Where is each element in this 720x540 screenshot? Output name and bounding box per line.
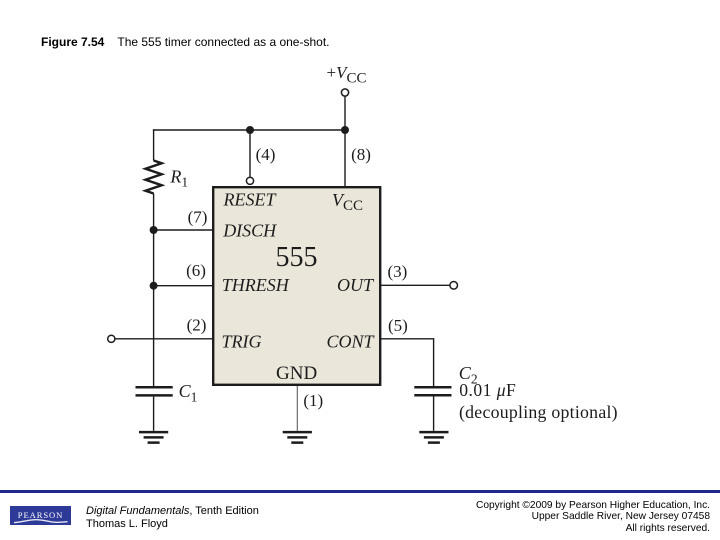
wire out (pin 3) — [381, 284, 450, 286]
svg-text:DISCH: DISCH — [222, 221, 277, 241]
terminal out open circle — [450, 282, 458, 290]
wire disch (pin 7) — [154, 229, 213, 231]
resistor R1 — [146, 161, 162, 194]
wire left rail upper lead — [153, 129, 155, 160]
svg-text:555: 555 — [276, 242, 318, 273]
label CONT — [326, 332, 375, 352]
pin label (3) — [387, 262, 407, 281]
wire cont (pin 5) — [381, 339, 434, 386]
wire thresh (pin 6) — [154, 285, 213, 287]
label 555 — [276, 242, 318, 273]
svg-text:(decoupling optional): (decoupling optional) — [459, 402, 618, 423]
node Vcc rail junction — [341, 126, 349, 134]
wire C1 to ground — [153, 397, 155, 431]
label RESET — [223, 190, 278, 210]
footer left credit — [86, 505, 259, 531]
label Vcc pin — [332, 190, 363, 214]
svg-text:GND: GND — [276, 363, 317, 384]
wire C2 to ground — [433, 397, 435, 431]
label THRESH — [222, 275, 290, 295]
svg-text:(3): (3) — [387, 262, 407, 281]
pin label (7) — [188, 207, 208, 226]
wire reset stem (pin 4) — [249, 130, 251, 177]
svg-text:(2): (2) — [187, 316, 207, 335]
footer right copyright — [476, 500, 710, 534]
svg-text:+VCC: +VCC — [327, 63, 367, 87]
label +Vcc — [327, 63, 367, 87]
capacitor C1 — [136, 387, 173, 395]
ground below C1 — [139, 432, 168, 443]
Pearson logo — [10, 506, 71, 525]
wire Vcc stem (pin 8) — [344, 96, 346, 186]
svg-text:RESET: RESET — [223, 190, 278, 210]
IC 555 timer U1 — [213, 187, 380, 385]
label TRIG — [222, 332, 262, 352]
wire left rail lower — [153, 194, 155, 387]
svg-text:(7): (7) — [188, 207, 208, 226]
node disch junction — [150, 226, 158, 234]
ground below chip — [283, 432, 312, 443]
ground below C2 — [419, 432, 448, 443]
label C1 — [179, 381, 198, 405]
svg-text:(6): (6) — [186, 261, 206, 280]
svg-text:CONT: CONT — [326, 332, 375, 352]
wire trig (pin 2) — [115, 338, 213, 340]
title caption — [41, 35, 330, 49]
wire top rail — [153, 129, 345, 131]
terminal +Vcc — [341, 89, 348, 96]
label OUT — [337, 275, 375, 295]
svg-text:0.01 μF: 0.01 μF — [459, 380, 516, 400]
terminal trigger input open circle — [108, 335, 115, 342]
pin label (1) — [303, 391, 323, 410]
node thresh junction — [150, 282, 158, 290]
footer blue rule — [0, 490, 720, 493]
pin label (8) — [351, 145, 371, 164]
svg-text:(8): (8) — [351, 145, 371, 164]
terminal reset open circle — [246, 177, 253, 184]
label decoupling optional — [459, 402, 618, 423]
pin label (2) — [187, 316, 207, 335]
pin label (6) — [186, 261, 206, 280]
label C2 — [459, 363, 478, 387]
svg-text:R1: R1 — [169, 166, 188, 189]
pin label (4) — [256, 145, 276, 164]
pin label (5) — [388, 316, 408, 335]
label 0.01 uF — [459, 380, 516, 400]
svg-text:TRIG: TRIG — [222, 332, 262, 352]
label GND — [276, 363, 317, 384]
capacitor C2 — [414, 387, 451, 395]
label R1 — [169, 166, 188, 189]
node reset branch junction — [246, 126, 254, 134]
svg-text:C1: C1 — [179, 381, 198, 405]
svg-text:OUT: OUT — [337, 275, 375, 295]
label DISCH — [222, 221, 277, 241]
svg-text:(1): (1) — [303, 391, 323, 410]
wire gnd (pin 1) — [296, 386, 298, 431]
svg-text:(5): (5) — [388, 316, 408, 335]
svg-text:THRESH: THRESH — [222, 275, 290, 295]
svg-text:(4): (4) — [256, 145, 276, 164]
svg-text:PEARSON: PEARSON — [18, 510, 63, 520]
